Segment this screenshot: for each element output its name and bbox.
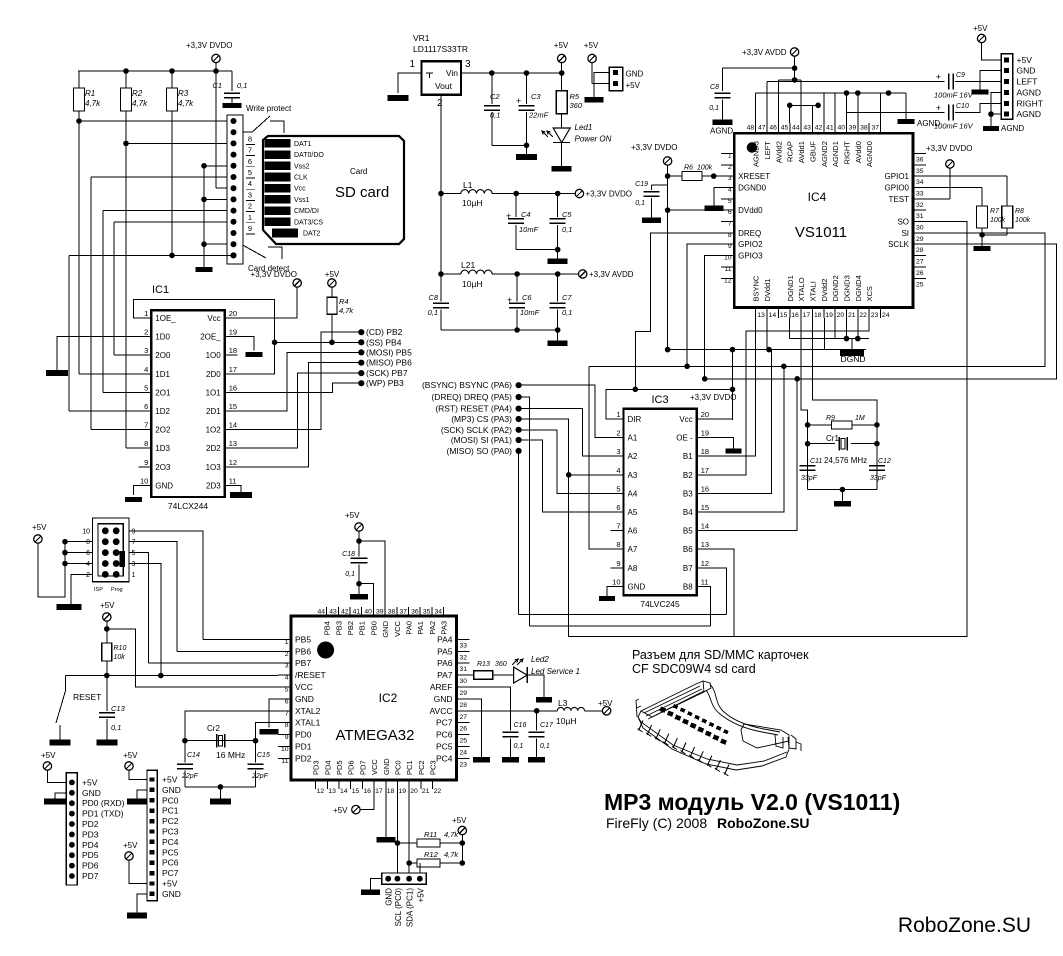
svg-text:13: 13 — [757, 312, 765, 319]
svg-text:PC1: PC1 — [405, 760, 414, 775]
svg-text:L3: L3 — [558, 698, 568, 708]
svg-text:+5V: +5V — [584, 41, 599, 50]
svg-text:+5V: +5V — [82, 777, 98, 787]
svg-text:20: 20 — [701, 410, 709, 419]
svg-text:PD7: PD7 — [82, 871, 99, 881]
svg-text:100mF 16V: 100mF 16V — [934, 91, 974, 100]
svg-text:GND: GND — [295, 694, 314, 704]
svg-text:21: 21 — [422, 788, 430, 795]
svg-text:18: 18 — [387, 788, 395, 795]
svg-text:2D2: 2D2 — [206, 444, 221, 453]
svg-text:R10: R10 — [114, 645, 127, 652]
svg-text:4: 4 — [616, 466, 620, 475]
svg-text:10: 10 — [140, 476, 148, 485]
svg-text:(SCK) SCLK (PA2): (SCK) SCLK (PA2) — [441, 425, 512, 435]
svg-text:(BSYNC) BSYNC (PA6): (BSYNC) BSYNC (PA6) — [422, 380, 512, 390]
svg-text:DAT2: DAT2 — [303, 231, 320, 238]
svg-text:9: 9 — [728, 243, 732, 250]
svg-text:SCLK: SCLK — [888, 240, 910, 249]
svg-text:L21: L21 — [461, 260, 475, 270]
svg-text:C3: C3 — [531, 92, 541, 101]
svg-text:C18: C18 — [342, 551, 355, 558]
svg-text:XRESET: XRESET — [738, 172, 770, 181]
svg-text:CLK: CLK — [294, 175, 308, 182]
svg-text:26: 26 — [916, 270, 924, 277]
svg-text:0,1: 0,1 — [562, 308, 572, 317]
svg-text:PC6: PC6 — [162, 858, 179, 868]
svg-text:10: 10 — [612, 577, 620, 586]
svg-text:PB5: PB5 — [295, 634, 311, 644]
svg-text:5: 5 — [285, 687, 289, 694]
svg-text:PD5: PD5 — [82, 850, 99, 860]
svg-text:IC3: IC3 — [651, 394, 668, 406]
svg-text:PC6: PC6 — [436, 730, 453, 740]
svg-text:6: 6 — [285, 698, 289, 705]
svg-text:A1: A1 — [628, 434, 638, 443]
svg-text:BSYNC: BSYNC — [752, 275, 761, 301]
svg-text:11: 11 — [229, 476, 237, 485]
svg-text:PD3: PD3 — [82, 829, 99, 839]
svg-text:7: 7 — [728, 221, 732, 228]
svg-text:6: 6 — [248, 157, 252, 166]
svg-text:SCL (PC0): SCL (PC0) — [394, 888, 403, 927]
svg-text:PC5: PC5 — [436, 742, 453, 752]
svg-text:RIGHT: RIGHT — [1017, 99, 1043, 109]
svg-text:RIGHT: RIGHT — [843, 141, 852, 165]
svg-text:3: 3 — [285, 663, 289, 670]
svg-text:DVdd2: DVdd2 — [820, 279, 829, 302]
svg-text:8: 8 — [285, 722, 289, 729]
svg-text:9: 9 — [616, 559, 620, 568]
svg-text:2D1: 2D1 — [206, 407, 221, 416]
svg-text:R5: R5 — [570, 92, 580, 101]
svg-text:A2: A2 — [628, 452, 638, 461]
svg-text:4: 4 — [248, 179, 252, 188]
svg-text:37: 37 — [399, 609, 407, 616]
svg-text:1O2: 1O2 — [206, 426, 222, 435]
svg-text:SI: SI — [901, 229, 909, 238]
svg-text:Vcc: Vcc — [294, 186, 306, 193]
svg-text:15: 15 — [701, 503, 709, 512]
svg-text:GND: GND — [162, 889, 181, 899]
svg-text:0,1: 0,1 — [514, 743, 524, 750]
svg-text:IC1: IC1 — [152, 284, 169, 296]
svg-text:8: 8 — [144, 439, 148, 448]
svg-text:TEST: TEST — [889, 195, 910, 204]
svg-text:FireFly (C) 2008: FireFly (C) 2008 — [606, 815, 707, 831]
svg-text:+: + — [936, 72, 941, 82]
svg-text:6: 6 — [616, 503, 620, 512]
svg-text:2O2: 2O2 — [155, 426, 171, 435]
svg-text:R13: R13 — [477, 661, 490, 668]
svg-text:/RESET: /RESET — [295, 670, 326, 680]
svg-text:38: 38 — [860, 125, 868, 132]
svg-text:A6: A6 — [628, 527, 638, 536]
svg-text:(MOSI) SI (PA1): (MOSI) SI (PA1) — [451, 435, 512, 445]
svg-text:+5V: +5V — [123, 841, 138, 850]
svg-text:(DREQ) DREQ (PA5): (DREQ) DREQ (PA5) — [431, 392, 512, 402]
svg-text:AGND: AGND — [1017, 88, 1042, 98]
svg-text:Prog: Prog — [111, 587, 123, 593]
svg-text:RoboZone.SU: RoboZone.SU — [717, 815, 810, 831]
svg-text:C15: C15 — [257, 752, 270, 759]
svg-text:B2: B2 — [683, 471, 693, 480]
svg-text:R7: R7 — [990, 208, 1000, 215]
svg-text:15: 15 — [229, 402, 237, 411]
svg-text:DGND: DGND — [840, 354, 865, 364]
svg-text:AGND0: AGND0 — [865, 141, 874, 167]
svg-text:22: 22 — [859, 312, 867, 319]
svg-text:41: 41 — [353, 609, 361, 616]
svg-text:4: 4 — [728, 186, 732, 193]
svg-text:3: 3 — [728, 175, 732, 182]
svg-text:3: 3 — [144, 346, 148, 355]
svg-text:AGND1: AGND1 — [831, 141, 840, 167]
svg-text:AREF: AREF — [430, 682, 453, 692]
svg-text:5: 5 — [248, 168, 252, 177]
svg-text:B6: B6 — [683, 545, 693, 554]
svg-text:GND: GND — [82, 788, 101, 798]
svg-text:1D3: 1D3 — [155, 444, 170, 453]
svg-text:43: 43 — [329, 609, 337, 616]
svg-text:RESET: RESET — [73, 692, 101, 702]
svg-text:DVdd1: DVdd1 — [763, 279, 772, 302]
svg-text:C9: C9 — [956, 72, 965, 79]
svg-text:XCS: XCS — [865, 286, 874, 301]
svg-text:27: 27 — [460, 714, 468, 721]
svg-text:R12: R12 — [424, 850, 439, 859]
svg-text:+5V: +5V — [162, 775, 178, 785]
svg-text:OE -: OE - — [676, 434, 693, 443]
svg-text:PA2: PA2 — [428, 621, 437, 635]
svg-text:25: 25 — [916, 281, 924, 288]
svg-text:0,1: 0,1 — [709, 105, 719, 112]
svg-text:0,1: 0,1 — [562, 225, 572, 234]
svg-text:PC3: PC3 — [162, 827, 179, 837]
svg-text:26: 26 — [460, 726, 468, 733]
svg-text:0,1: 0,1 — [237, 81, 247, 90]
svg-text:+3,3V AVDD: +3,3V AVDD — [742, 48, 787, 57]
svg-text:DGND1: DGND1 — [786, 275, 795, 301]
svg-text:+: + — [936, 103, 941, 113]
svg-text:10µH: 10µH — [462, 279, 483, 289]
svg-text:PB4: PB4 — [323, 621, 332, 635]
svg-text:PD6: PD6 — [82, 861, 99, 871]
svg-text:AGND: AGND — [1017, 109, 1042, 119]
svg-text:Vss1: Vss1 — [294, 197, 310, 204]
svg-text:GND: GND — [382, 758, 391, 775]
svg-text:R4: R4 — [339, 297, 349, 306]
svg-text:2: 2 — [144, 328, 148, 337]
svg-text:2D3: 2D3 — [206, 481, 221, 490]
svg-text:PA1: PA1 — [416, 621, 425, 635]
svg-text:9: 9 — [285, 734, 289, 741]
svg-text:+5V: +5V — [345, 511, 360, 520]
svg-text:22: 22 — [434, 788, 442, 795]
svg-text:(MOSI) PB5: (MOSI) PB5 — [366, 347, 412, 357]
svg-text:GPIO0: GPIO0 — [885, 183, 910, 192]
svg-text:DIR: DIR — [628, 415, 642, 424]
svg-text:22pF: 22pF — [251, 773, 269, 780]
svg-text:15: 15 — [352, 788, 360, 795]
svg-text:A8: A8 — [628, 564, 638, 573]
svg-text:PD7: PD7 — [358, 760, 367, 775]
svg-text:10: 10 — [281, 746, 289, 753]
svg-text:XTAL1: XTAL1 — [295, 718, 321, 728]
svg-text:2: 2 — [616, 429, 620, 438]
svg-text:47: 47 — [758, 125, 766, 132]
svg-text:PC7: PC7 — [436, 718, 453, 728]
svg-text:GND: GND — [628, 582, 646, 591]
svg-text:1OE_: 1OE_ — [155, 314, 176, 323]
svg-text:100k: 100k — [697, 165, 713, 172]
svg-text:8: 8 — [248, 134, 252, 143]
svg-text:CF SDC09W4 sd card: CF SDC09W4 sd card — [632, 662, 756, 676]
svg-text:4: 4 — [144, 365, 148, 374]
svg-text:4,7k: 4,7k — [444, 830, 459, 839]
svg-text:R11: R11 — [424, 830, 437, 839]
svg-text:19: 19 — [229, 328, 237, 337]
svg-text:6: 6 — [144, 402, 148, 411]
svg-text:39: 39 — [849, 125, 857, 132]
svg-text:LEFT: LEFT — [763, 141, 772, 160]
svg-text:PB6: PB6 — [295, 646, 311, 656]
svg-text:+3,3V DVDO: +3,3V DVDO — [690, 393, 736, 402]
svg-text:74LVC245: 74LVC245 — [640, 599, 680, 609]
svg-text:20: 20 — [837, 312, 845, 319]
svg-text:PD2: PD2 — [295, 753, 312, 763]
svg-text:B4: B4 — [683, 508, 693, 517]
svg-text:R9: R9 — [826, 415, 835, 422]
svg-text:+5V: +5V — [973, 24, 988, 33]
svg-text:29: 29 — [916, 236, 924, 243]
svg-text:C1: C1 — [212, 81, 222, 90]
svg-text:C8: C8 — [710, 84, 719, 91]
svg-text:5: 5 — [144, 383, 148, 392]
svg-text:PD2: PD2 — [82, 819, 99, 829]
svg-text:38: 38 — [388, 609, 396, 616]
svg-text:GND: GND — [381, 620, 390, 637]
svg-text:33pF: 33pF — [870, 475, 887, 482]
svg-text:0,1: 0,1 — [635, 200, 645, 207]
svg-text:GND: GND — [434, 694, 453, 704]
svg-text:Cr1: Cr1 — [826, 434, 839, 443]
svg-text:RCAP: RCAP — [786, 141, 795, 162]
svg-text:33: 33 — [916, 190, 924, 197]
svg-text:40: 40 — [837, 125, 845, 132]
svg-text:XTALI: XTALI — [808, 281, 817, 301]
svg-text:C12: C12 — [878, 458, 891, 465]
svg-text:19: 19 — [399, 788, 407, 795]
svg-text:7: 7 — [285, 710, 289, 717]
svg-text:16: 16 — [791, 312, 799, 319]
svg-text:SD card: SD card — [335, 184, 389, 201]
svg-text:48: 48 — [747, 125, 755, 132]
svg-text:14: 14 — [229, 421, 237, 430]
svg-text:11: 11 — [725, 266, 732, 273]
svg-text:13: 13 — [229, 439, 237, 448]
svg-text:4,7k: 4,7k — [444, 850, 459, 859]
svg-text:34: 34 — [435, 609, 443, 616]
svg-text:42: 42 — [341, 609, 349, 616]
svg-text:23: 23 — [871, 312, 879, 319]
svg-text:16 MHz: 16 MHz — [216, 750, 245, 760]
svg-text:Led1: Led1 — [575, 123, 593, 132]
svg-text:(WP) PB3: (WP) PB3 — [366, 378, 404, 388]
svg-text:31: 31 — [460, 666, 468, 673]
svg-text:10k: 10k — [114, 654, 126, 661]
svg-text:43: 43 — [803, 125, 811, 132]
svg-text:28: 28 — [916, 247, 924, 254]
svg-text:B1: B1 — [683, 452, 693, 461]
svg-text:GND: GND — [385, 888, 394, 906]
svg-text:+3,3V DVDO: +3,3V DVDO — [186, 41, 232, 50]
svg-text:40: 40 — [364, 609, 372, 616]
svg-text:15: 15 — [780, 312, 788, 319]
svg-text:36: 36 — [916, 156, 924, 163]
svg-text:5: 5 — [616, 484, 620, 493]
svg-text:17: 17 — [229, 365, 237, 374]
svg-text:DREQ: DREQ — [738, 229, 761, 238]
svg-text:R1: R1 — [85, 89, 95, 98]
svg-text:1O0: 1O0 — [206, 351, 222, 360]
svg-text:42: 42 — [815, 125, 823, 132]
svg-text:CMD/DI: CMD/DI — [294, 208, 319, 215]
svg-text:1: 1 — [132, 572, 136, 579]
svg-text:7: 7 — [132, 539, 136, 546]
svg-text:3: 3 — [465, 59, 471, 70]
svg-text:(RST) RESET (PA4): (RST) RESET (PA4) — [435, 404, 512, 414]
svg-text:+5V: +5V — [162, 879, 178, 889]
svg-text:2: 2 — [728, 164, 732, 171]
svg-text:Vcc: Vcc — [679, 415, 692, 424]
svg-text:PA7: PA7 — [437, 670, 453, 680]
svg-text:(CD) PB2: (CD) PB2 — [366, 327, 403, 337]
svg-text:PA3: PA3 — [440, 621, 449, 635]
svg-text:GPIO1: GPIO1 — [885, 172, 910, 181]
svg-text:+: + — [507, 295, 512, 305]
svg-text:VCC: VCC — [393, 620, 402, 636]
svg-text:C13: C13 — [111, 704, 126, 713]
svg-text:10: 10 — [724, 255, 732, 262]
svg-text:14: 14 — [340, 788, 348, 795]
svg-text:(MP3) CS (PA3): (MP3) CS (PA3) — [451, 414, 512, 424]
svg-text:B8: B8 — [683, 582, 693, 591]
svg-text:1D1: 1D1 — [155, 370, 170, 379]
svg-text:A5: A5 — [628, 508, 638, 517]
svg-text:GPIO2: GPIO2 — [738, 240, 763, 249]
svg-text:GND: GND — [1017, 66, 1036, 76]
svg-text:5: 5 — [728, 198, 732, 205]
svg-text:DGND0: DGND0 — [738, 183, 767, 192]
svg-text:35: 35 — [423, 609, 431, 616]
svg-text:16: 16 — [701, 484, 709, 493]
svg-text:13: 13 — [701, 540, 709, 549]
svg-text:+3,3V DVDO: +3,3V DVDO — [631, 143, 677, 152]
svg-text:44: 44 — [318, 609, 326, 616]
svg-text:DGND4: DGND4 — [854, 275, 863, 301]
svg-text:GPIO3: GPIO3 — [738, 252, 763, 261]
svg-text:19: 19 — [825, 312, 833, 319]
svg-text:SO: SO — [897, 218, 909, 227]
svg-text:PB3: PB3 — [334, 621, 343, 635]
svg-text:2: 2 — [437, 98, 443, 109]
svg-text:LEFT: LEFT — [1017, 76, 1038, 86]
svg-text:AVCC: AVCC — [430, 706, 453, 716]
svg-text:PA0: PA0 — [405, 621, 414, 635]
svg-text:+: + — [516, 96, 521, 106]
svg-text:+5V: +5V — [100, 601, 115, 610]
svg-text:360: 360 — [570, 101, 583, 110]
svg-text:R8: R8 — [1015, 208, 1024, 215]
svg-text:4,7k: 4,7k — [339, 306, 354, 315]
svg-text:36: 36 — [411, 609, 419, 616]
svg-text:PC1: PC1 — [162, 806, 179, 816]
svg-text:GND: GND — [626, 70, 644, 79]
svg-text:+: + — [506, 211, 511, 221]
svg-text:31: 31 — [916, 213, 924, 220]
svg-text:12: 12 — [724, 277, 732, 284]
svg-text:Cr2: Cr2 — [207, 724, 220, 733]
svg-text:C11: C11 — [810, 458, 822, 465]
svg-text:PB0: PB0 — [369, 621, 378, 635]
svg-text:B3: B3 — [683, 489, 693, 498]
svg-text:10µH: 10µH — [462, 198, 483, 208]
svg-text:+5V: +5V — [1017, 55, 1033, 65]
svg-text:PA4: PA4 — [437, 634, 453, 644]
svg-text:7: 7 — [144, 421, 148, 430]
svg-text:32: 32 — [916, 202, 924, 209]
svg-text:(SS) PB4: (SS) PB4 — [366, 337, 402, 347]
svg-text:PD3: PD3 — [312, 760, 321, 775]
svg-text:2: 2 — [285, 651, 289, 658]
svg-text:2O1: 2O1 — [155, 388, 171, 397]
svg-text:DAT1: DAT1 — [294, 141, 311, 148]
svg-text:100k: 100k — [1015, 217, 1031, 224]
svg-text:44: 44 — [792, 125, 800, 132]
svg-text:74LCX244: 74LCX244 — [168, 501, 208, 511]
svg-text:30: 30 — [460, 678, 468, 685]
svg-text:PD1 (TXD): PD1 (TXD) — [82, 809, 124, 819]
svg-text:AGND3: AGND3 — [752, 141, 761, 167]
svg-text:VCC: VCC — [295, 682, 313, 692]
svg-text:(SCK) PB7: (SCK) PB7 — [366, 368, 408, 378]
svg-text:PC5: PC5 — [162, 847, 179, 857]
svg-text:ISP: ISP — [94, 587, 103, 593]
svg-text:46: 46 — [769, 125, 777, 132]
svg-text:PD4: PD4 — [82, 840, 99, 850]
svg-text:R3: R3 — [178, 89, 189, 98]
svg-text:14: 14 — [701, 522, 709, 531]
svg-text:5: 5 — [132, 550, 136, 557]
svg-text:12: 12 — [701, 559, 709, 568]
svg-text:37: 37 — [871, 125, 879, 132]
svg-text:PB1: PB1 — [358, 621, 367, 635]
svg-text:+5V: +5V — [123, 751, 138, 760]
svg-text:AVdd1: AVdd1 — [797, 141, 806, 163]
svg-text:IC4: IC4 — [808, 190, 827, 204]
svg-text:DVdd0: DVdd0 — [738, 206, 763, 215]
svg-text:8: 8 — [86, 539, 90, 546]
svg-text:2O0: 2O0 — [155, 351, 171, 360]
svg-text:1D2: 1D2 — [155, 407, 170, 416]
svg-text:11: 11 — [281, 758, 288, 765]
svg-text:+3,3V DVDO: +3,3V DVDO — [251, 270, 297, 279]
svg-text:LD1117S33TR: LD1117S33TR — [413, 44, 468, 54]
svg-text:XTAL2: XTAL2 — [295, 706, 321, 716]
svg-text:17: 17 — [803, 312, 811, 319]
svg-text:(MISO) SO (PA0): (MISO) SO (PA0) — [447, 446, 513, 456]
